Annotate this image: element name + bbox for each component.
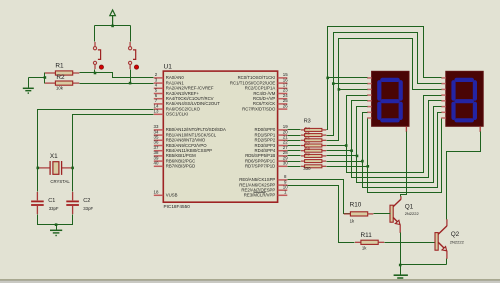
svg-text:CRYSTAL: CRYSTAL bbox=[50, 179, 70, 184]
svg-text:RA0/AN0: RA0/AN0 bbox=[166, 75, 185, 80]
svg-text:R4: R4 bbox=[305, 125, 311, 130]
svg-text:26: 26 bbox=[283, 103, 288, 108]
wire pack R right pin 0 bbox=[322, 129, 326, 131]
wire node B to RA1 bbox=[131, 83, 154, 85]
svg-text:RC0/T1OSO/T1CKI: RC0/T1OSO/T1CKI bbox=[238, 75, 276, 80]
wire crystal left to C1 bbox=[37, 168, 39, 192]
wire net seg5 up to display1 bbox=[357, 107, 368, 156]
svg-text:15: 15 bbox=[283, 72, 288, 77]
resistor pack body 6 bbox=[305, 160, 322, 163]
pin 38 stub bbox=[154, 155, 164, 157]
svg-text:RA4/T0CKI/C1OUT/RCV: RA4/T0CKI/C1OUT/RCV bbox=[166, 96, 214, 101]
resistor R10 bbox=[344, 212, 374, 216]
svg-text:RC2/CCP1/P1A: RC2/CCP1/P1A bbox=[245, 86, 276, 91]
svg-text:16: 16 bbox=[283, 77, 288, 82]
svg-text:RD7/SPP7/P1D: RD7/SPP7/P1D bbox=[245, 164, 275, 169]
wire R1-R2 left vertical bbox=[44, 73, 46, 84]
pin 35 stub bbox=[154, 139, 164, 141]
junction R1R2 ground tap bbox=[44, 76, 47, 79]
svg-text:13: 13 bbox=[154, 109, 159, 114]
svg-text:RB6/KBI2/PGC: RB6/KBI2/PGC bbox=[166, 158, 195, 163]
display1 segment pin 7 stub bbox=[367, 111, 372, 113]
svg-text:RD3/SPP3: RD3/SPP3 bbox=[255, 143, 276, 148]
ground bottom bbox=[394, 275, 408, 280]
pin 7 stub bbox=[154, 103, 164, 105]
pin 34 stub bbox=[154, 134, 164, 136]
svg-text:22: 22 bbox=[283, 140, 288, 145]
display2 common pin stub bbox=[479, 126, 481, 132]
ground left bbox=[23, 88, 34, 93]
pin 13 stub bbox=[154, 113, 164, 115]
wire RD3 to pack bbox=[288, 145, 301, 147]
junction emitter rail bbox=[399, 264, 402, 267]
display1 segment pin 4 stub bbox=[367, 94, 372, 96]
wire pack R right pin 1 bbox=[322, 134, 326, 136]
decorative bottom strip bbox=[0, 279, 500, 280]
junction node B button2 bbox=[129, 82, 132, 85]
wire power to button1 bbox=[94, 26, 96, 42]
wire button2 down bbox=[130, 70, 132, 84]
pin 3 stub bbox=[154, 82, 164, 84]
pin 16 stub bbox=[278, 82, 288, 84]
wire net seg3 from pack bbox=[327, 145, 347, 147]
svg-text:RA2/AN2/VREF-/CVREF: RA2/AN2/VREF-/CVREF bbox=[166, 86, 214, 91]
wire RD1 to pack bbox=[288, 135, 301, 137]
wire left ground drop bbox=[28, 78, 30, 88]
wire net seg1 branch to display1 bbox=[334, 83, 368, 85]
svg-text:RD1/SPP1: RD1/SPP1 bbox=[255, 132, 276, 137]
pin 27 stub bbox=[278, 150, 288, 152]
svg-text:37: 37 bbox=[154, 145, 159, 150]
junction cap rail ground bbox=[55, 223, 58, 226]
display1 segment pin 5 stub bbox=[367, 100, 372, 102]
wire net seg6 up to display1 bbox=[363, 113, 368, 162]
crystal X1 bbox=[38, 161, 73, 175]
wire rail up to Q2 emitter bbox=[446, 259, 448, 265]
svg-text:33: 33 bbox=[154, 124, 159, 129]
display2 segment pin 6 stub bbox=[441, 106, 446, 108]
svg-text:28: 28 bbox=[283, 150, 288, 155]
wire net seg2 branch to display1 bbox=[339, 89, 368, 91]
wire RD2 to pack bbox=[288, 140, 301, 142]
pin 28 stub bbox=[278, 155, 288, 157]
wire RD0 to pack bbox=[288, 129, 301, 131]
svg-text:R10: R10 bbox=[350, 201, 362, 208]
wire pack R left pin 4 bbox=[301, 150, 305, 152]
wire power to button2 bbox=[130, 26, 132, 42]
svg-text:RB2/AN8/INT2/VMO: RB2/AN8/INT2/VMO bbox=[166, 138, 206, 143]
wire R1 to node A bbox=[80, 72, 95, 74]
wire pack R left pin 0 bbox=[301, 129, 305, 131]
wire display1 common to Q1 bbox=[401, 132, 407, 197]
svg-text:34: 34 bbox=[154, 129, 159, 134]
wire net seg0 over top bbox=[327, 27, 442, 130]
pin 39 stub bbox=[154, 160, 164, 162]
svg-text:RB5/KBI1/PGM: RB5/KBI1/PGM bbox=[166, 153, 196, 158]
display2 segment pin 3 stub bbox=[441, 88, 446, 90]
svg-text:R1: R1 bbox=[55, 62, 64, 69]
svg-text:27: 27 bbox=[283, 145, 288, 150]
svg-text:35: 35 bbox=[154, 135, 159, 140]
wire net seg0 branch to display1 bbox=[328, 77, 368, 79]
svg-text:2N2222: 2N2222 bbox=[450, 240, 465, 245]
MCLR overline bbox=[254, 191, 266, 193]
display2 segment pin 8 stub bbox=[441, 117, 446, 119]
svg-text:C2: C2 bbox=[83, 198, 90, 204]
capacitor C2 bbox=[66, 192, 79, 214]
pin 22 stub bbox=[278, 145, 288, 147]
svg-text:10: 10 bbox=[283, 184, 288, 189]
pin 37 stub bbox=[154, 150, 164, 152]
junction net seg1 bbox=[332, 82, 335, 85]
op-amp U1 body PIC18F4550 bbox=[163, 71, 277, 202]
wire R10 to Q1 base bbox=[374, 213, 391, 215]
svg-text:OSC1/CLKI: OSC1/CLKI bbox=[166, 112, 188, 117]
pin 5 stub bbox=[154, 93, 164, 95]
pin 18 stub bbox=[154, 194, 164, 196]
svg-text:RD4/SPP4: RD4/SPP4 bbox=[255, 148, 276, 153]
pin 25 stub bbox=[278, 103, 288, 105]
resistor pack body 2 bbox=[305, 139, 322, 142]
wire pack R right pin 5 bbox=[322, 155, 326, 157]
svg-text:RC6/TX/CK: RC6/TX/CK bbox=[253, 101, 276, 106]
pin 9 stub bbox=[278, 184, 288, 186]
wire display2 common to Q2 bbox=[447, 132, 481, 220]
junction crystal left bbox=[37, 167, 40, 170]
svg-text:U1: U1 bbox=[164, 63, 173, 70]
7-segment display left digit bbox=[372, 71, 409, 126]
wire pack R right pin 4 bbox=[322, 150, 326, 152]
wire R2 right pin bbox=[73, 82, 80, 84]
wire R1 left pin bbox=[45, 72, 56, 74]
display2 segment pin 5 stub bbox=[441, 100, 446, 102]
wire pack R right pin 2 bbox=[322, 139, 326, 141]
svg-text:30: 30 bbox=[283, 161, 288, 166]
svg-text:19: 19 bbox=[283, 124, 288, 129]
wire button1 down bbox=[94, 70, 96, 73]
wire to center ground bbox=[56, 225, 58, 230]
svg-text:PIC18F4550: PIC18F4550 bbox=[164, 204, 191, 209]
wire crystal right to C2 bbox=[72, 168, 74, 192]
junction net seg2 bbox=[338, 88, 341, 91]
svg-text:R3: R3 bbox=[304, 119, 311, 125]
wire RD4 to pack bbox=[288, 150, 301, 152]
svg-text:RA5/AN4/SS/LVDIN/C2OUT: RA5/AN4/SS/LVDIN/C2OUT bbox=[166, 101, 220, 106]
pin 19 stub bbox=[278, 129, 288, 131]
svg-text:RB1/AN10/INT1/SCK/SCL: RB1/AN10/INT1/SCK/SCL bbox=[166, 132, 217, 137]
svg-text:R5: R5 bbox=[305, 131, 310, 136]
svg-text:R11: R11 bbox=[361, 232, 373, 239]
svg-text:10k: 10k bbox=[56, 86, 64, 91]
pin 23 stub bbox=[278, 93, 288, 95]
junction power rail bbox=[111, 25, 114, 28]
svg-text:Q2: Q2 bbox=[451, 231, 460, 238]
wire C1 C2 bottom rail bbox=[38, 215, 73, 225]
pin 33 stub bbox=[154, 129, 164, 131]
resistor pack body 3 bbox=[305, 144, 322, 147]
pin 1 stub bbox=[278, 194, 288, 196]
pin 15 stub bbox=[278, 77, 288, 79]
wire net seg6 from pack bbox=[327, 161, 363, 163]
svg-text:R9: R9 bbox=[305, 151, 310, 156]
display1 common pin stub bbox=[405, 126, 407, 132]
wire RE1 to R11 bbox=[288, 186, 355, 243]
svg-text:RC5/D+/VP: RC5/D+/VP bbox=[253, 96, 275, 101]
wire net seg7 up to display1 bbox=[367, 119, 369, 167]
junction net seg5 bbox=[356, 155, 359, 158]
svg-text:RD0/SPP0: RD0/SPP0 bbox=[255, 127, 276, 132]
push button 2 bbox=[129, 42, 139, 69]
svg-text:X1: X1 bbox=[50, 153, 58, 160]
pin 24 stub bbox=[278, 98, 288, 100]
transistor Q1 2N2222 bbox=[390, 196, 401, 233]
ground center bbox=[50, 230, 62, 235]
svg-text:C1: C1 bbox=[48, 198, 55, 204]
wire net seg5 from pack bbox=[327, 155, 357, 157]
display1 segment pin 1 stub bbox=[367, 77, 372, 79]
junction net seg4 bbox=[350, 149, 353, 152]
pin 8 stub bbox=[278, 179, 288, 181]
wire net seg6 under to display2 bbox=[363, 113, 442, 188]
display1 segment pin 3 stub bbox=[367, 88, 372, 90]
pin 6 stub bbox=[154, 98, 164, 100]
svg-text:33pF: 33pF bbox=[83, 206, 93, 211]
resistor R1 bbox=[55, 71, 72, 75]
pin 2 stub bbox=[154, 77, 164, 79]
svg-text:33pF: 33pF bbox=[49, 206, 59, 211]
svg-text:23: 23 bbox=[283, 88, 288, 93]
wire OSC2 to crystal left bbox=[38, 110, 154, 168]
svg-text:RC7/RX/DT/SDO: RC7/RX/DT/SDO bbox=[242, 106, 276, 111]
wire net seg4 from pack bbox=[327, 150, 352, 152]
svg-text:18: 18 bbox=[154, 190, 159, 195]
svg-text:RC1/T1OSI/CCP2/UOE: RC1/T1OSI/CCP2/UOE bbox=[230, 80, 276, 85]
pin 10 stub bbox=[278, 189, 288, 191]
svg-text:RA6/OSC2/CLKO: RA6/OSC2/CLKO bbox=[166, 106, 201, 111]
transistor Q2 2N2222 bbox=[435, 219, 447, 258]
svg-text:R7: R7 bbox=[305, 141, 310, 146]
svg-text:RA1/AN1: RA1/AN1 bbox=[166, 80, 185, 85]
svg-text:29: 29 bbox=[283, 155, 288, 160]
svg-text:36: 36 bbox=[154, 140, 159, 145]
svg-text:RB3/AN9/CCP2/VPO: RB3/AN9/CCP2/VPO bbox=[166, 143, 207, 148]
display2 segment pin 4 stub bbox=[441, 94, 446, 96]
display1 segment pin 8 stub bbox=[367, 117, 372, 119]
push button 1 bbox=[93, 42, 103, 69]
wire RE0 to R10 bbox=[288, 180, 351, 214]
wire pack R left pin 7 bbox=[301, 165, 305, 167]
pin 21 stub bbox=[278, 139, 288, 141]
wire net seg2 over top bbox=[327, 39, 442, 141]
power symbol VCC arrow bbox=[110, 10, 116, 16]
wire pack R left pin 2 bbox=[301, 139, 305, 141]
pin 40 stub bbox=[154, 165, 164, 167]
pin 17 stub bbox=[278, 87, 288, 89]
wire R11 to Q2 base bbox=[385, 242, 435, 244]
svg-text:RE1/AN6/CK2SPP: RE1/AN6/CK2SPP bbox=[239, 182, 275, 187]
resistor R11 bbox=[355, 240, 384, 244]
svg-text:RA3/AN3/VREF+: RA3/AN3/VREF+ bbox=[166, 91, 200, 96]
junction net seg6 bbox=[361, 160, 364, 163]
wire to bottom ground bbox=[400, 265, 402, 275]
wire Q1 emitter down bbox=[400, 233, 402, 265]
display2 segment pin 2 stub bbox=[441, 83, 446, 85]
display1 segment pin 2 stub bbox=[367, 83, 372, 85]
resistor pack body 0 bbox=[305, 128, 322, 131]
display2 segment pin 7 stub bbox=[441, 111, 446, 113]
wire R2 left pin bbox=[45, 82, 56, 84]
svg-text:24: 24 bbox=[283, 93, 288, 98]
svg-text:RB4/AN11/KBI0/CSSPP: RB4/AN11/KBI0/CSSPP bbox=[166, 148, 212, 153]
pin 30 stub bbox=[278, 165, 288, 167]
pin 36 stub bbox=[154, 145, 164, 147]
svg-text:RD6/SPP6/P1C: RD6/SPP6/P1C bbox=[245, 158, 275, 163]
display2 segment pin 1 stub bbox=[441, 77, 446, 79]
svg-text:2N2222: 2N2222 bbox=[405, 211, 420, 216]
wire pack R right pin 6 bbox=[322, 160, 326, 162]
7-segment display right digit bbox=[446, 71, 483, 126]
junction net seg3 bbox=[345, 144, 348, 147]
svg-text:20: 20 bbox=[283, 129, 288, 134]
wire node A to RA0 bbox=[95, 73, 154, 78]
wire RD7 to pack bbox=[288, 166, 301, 168]
resistor R2 bbox=[55, 81, 72, 85]
svg-text:38: 38 bbox=[154, 150, 159, 155]
wire R2 to node B bbox=[80, 83, 131, 85]
wire RD6 to pack bbox=[288, 161, 301, 163]
svg-text:RB7/KBI3/PGD: RB7/KBI3/PGD bbox=[166, 164, 195, 169]
junction crystal right bbox=[71, 167, 74, 170]
wire RD5 to pack bbox=[288, 155, 301, 157]
wire to left ground bbox=[29, 77, 45, 79]
svg-text:21: 21 bbox=[283, 135, 288, 140]
junction net seg0 bbox=[326, 77, 329, 80]
wire pack R left pin 3 bbox=[301, 145, 305, 147]
junction net seg7 bbox=[367, 165, 370, 168]
wire net seg4 up to display1 bbox=[352, 101, 368, 151]
wire pack R left pin 6 bbox=[301, 160, 305, 162]
wire net seg3 under to display2 bbox=[347, 96, 442, 173]
svg-text:17: 17 bbox=[283, 83, 288, 88]
svg-text:VUSB: VUSB bbox=[166, 193, 178, 198]
svg-text:39: 39 bbox=[154, 155, 159, 160]
wire emitter rail bbox=[401, 264, 447, 266]
wire power rail bbox=[95, 25, 131, 27]
resistor pack body 4 bbox=[305, 149, 322, 152]
wire pack R left pin 1 bbox=[301, 134, 305, 136]
svg-text:R2: R2 bbox=[56, 74, 65, 81]
wire R1 right pin bbox=[73, 72, 80, 74]
wire net seg1 over top bbox=[327, 33, 442, 136]
wire net seg3 up to display1 bbox=[347, 96, 368, 146]
wire pack R right pin 7 bbox=[322, 165, 326, 167]
wire net seg4 under to display2 bbox=[352, 101, 442, 178]
svg-text:R8: R8 bbox=[305, 146, 310, 151]
svg-text:RB0/AN12/INT0/FLT0/SDI/SDA: RB0/AN12/INT0/FLT0/SDI/SDA bbox=[166, 127, 226, 132]
wire pack R right pin 3 bbox=[322, 145, 326, 147]
display1 segment pin 6 stub bbox=[367, 106, 372, 108]
svg-text:R6: R6 bbox=[305, 136, 310, 141]
svg-text:RD2/SPP2: RD2/SPP2 bbox=[255, 138, 276, 143]
svg-text:RE0/AN5/CK1SPP: RE0/AN5/CK1SPP bbox=[239, 177, 275, 182]
junction node A button1 bbox=[94, 72, 97, 75]
wire pack R left pin 5 bbox=[301, 155, 305, 157]
resistor pack body 1 bbox=[305, 134, 322, 137]
svg-text:25: 25 bbox=[283, 98, 288, 103]
pin 29 stub bbox=[278, 160, 288, 162]
resistor pack body 7 bbox=[305, 165, 322, 168]
svg-text:RE2/AN7/OESPP: RE2/AN7/OESPP bbox=[241, 188, 275, 193]
pin 4 stub bbox=[154, 87, 164, 89]
wire net seg5 under to display2 bbox=[357, 107, 442, 183]
wire net seg7 under to display2 bbox=[368, 119, 442, 193]
svg-text:14: 14 bbox=[154, 103, 159, 108]
svg-text:330: 330 bbox=[303, 166, 311, 171]
svg-text:RD5/SPP5/P1B: RD5/SPP5/P1B bbox=[245, 153, 275, 158]
capacitor C1 bbox=[31, 192, 44, 214]
svg-text:RE3/MCLR/VPP: RE3/MCLR/VPP bbox=[244, 193, 276, 198]
pin 26 stub bbox=[278, 108, 288, 110]
svg-text:RC4/D-/VM: RC4/D-/VM bbox=[253, 91, 275, 96]
pin 14 stub bbox=[154, 108, 164, 110]
pin 20 stub bbox=[278, 134, 288, 136]
resistor pack body 5 bbox=[305, 154, 322, 157]
wire net seg7 from pack bbox=[327, 166, 368, 168]
svg-text:40: 40 bbox=[154, 161, 159, 166]
svg-text:Q1: Q1 bbox=[405, 203, 414, 210]
wire OSC1 to crystal right bbox=[73, 115, 154, 168]
